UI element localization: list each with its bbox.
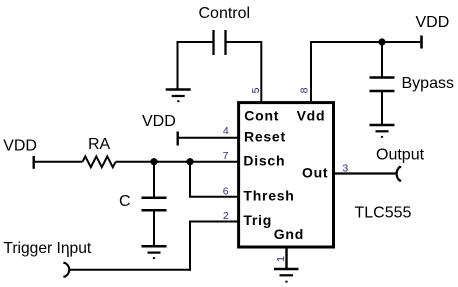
svg-text:Gnd: Gnd [274, 226, 304, 242]
wire control-cap left horizontal [177, 41, 214, 43]
svg-text:Output: Output [376, 147, 425, 164]
wire thresh pin6 horizontal [189, 196, 239, 198]
wire bypass drop [381, 42, 383, 78]
ground IC [274, 269, 299, 283]
terminal output arc [397, 167, 402, 181]
svg-text:Bypass: Bypass [402, 75, 454, 92]
svg-text:Thresh: Thresh [243, 188, 294, 204]
wire trig pin2 horizontal [189, 221, 239, 223]
terminal trigger tick [67, 252, 69, 257]
junction node C [150, 158, 157, 165]
svg-text:Trig: Trig [243, 212, 272, 228]
svg-text:RA: RA [88, 136, 111, 153]
svg-text:VDD: VDD [416, 14, 450, 31]
svg-text:Vdd: Vdd [297, 108, 326, 124]
wire C drop [153, 162, 155, 198]
wire bypass to ground [381, 91, 383, 125]
svg-text:7: 7 [223, 150, 229, 162]
svg-text:C: C [119, 193, 131, 210]
resistor RA [83, 156, 116, 167]
wire pin5 vertical [260, 41, 262, 103]
wire C to ground [153, 210, 155, 246]
wire reset pin4 [178, 137, 239, 139]
svg-text:Reset: Reset [244, 128, 286, 144]
junction node thresh [186, 158, 193, 165]
wire vdd top horizontal [311, 41, 422, 43]
svg-text:VDD: VDD [142, 113, 176, 130]
wire RA to box pin7 [116, 161, 239, 163]
wire out pin3 [332, 172, 396, 174]
wire gnd pin1 vertical [285, 246, 287, 269]
capacitor C [142, 198, 167, 211]
svg-text:TLC555: TLC555 [355, 205, 412, 222]
svg-text:Out: Out [302, 165, 328, 181]
wire control-cap ground drop vertical [177, 41, 179, 90]
wire control-cap right horizontal [226, 41, 262, 43]
terminal trigger input arc [63, 263, 69, 277]
ground bypass [370, 125, 395, 138]
svg-text:Cont: Cont [244, 108, 279, 124]
terminal VDD top-right [420, 36, 423, 49]
terminal VDD middle [176, 132, 178, 146]
ground C [142, 246, 167, 259]
svg-text:VDD: VDD [3, 137, 37, 154]
wire pin8 vertical [310, 41, 312, 103]
terminal VDD left [33, 156, 35, 169]
svg-text:6: 6 [223, 185, 229, 197]
capacitor Bypass [370, 78, 395, 92]
svg-text:Control: Control [199, 5, 251, 22]
svg-text:Trigger Input: Trigger Input [3, 240, 91, 257]
wire trigger horizontal [70, 269, 191, 271]
svg-text:1: 1 [275, 256, 287, 262]
svg-text:Disch: Disch [243, 153, 285, 169]
op-amp U1 TLC555 box [239, 103, 334, 247]
wire trigger vertical [189, 221, 191, 271]
svg-text:4: 4 [223, 125, 229, 137]
wire thresh branch vertical [189, 162, 191, 197]
ground control [166, 90, 191, 103]
svg-text:3: 3 [342, 162, 348, 174]
capacitor Control [214, 30, 226, 55]
wire vdd to RA [34, 161, 83, 163]
svg-text:8: 8 [299, 87, 311, 93]
svg-text:5: 5 [250, 87, 262, 93]
svg-text:2: 2 [223, 210, 229, 222]
junction vdd-bypass [378, 38, 385, 45]
